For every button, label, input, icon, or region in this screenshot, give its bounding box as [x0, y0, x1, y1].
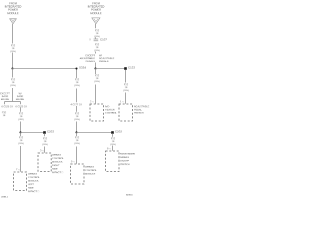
connector row C126 (branch A)	[1, 105, 12, 108]
label wire branch B F32 18 OR	[18, 112, 23, 121]
label adjustable pedal switch	[134, 105, 149, 115]
wire to left airbag module lower	[20, 146, 22, 172]
label FROM INTEGRATED POWER MODULE (left)	[5, 2, 22, 15]
wire branch B drop	[20, 102, 22, 105]
label wire F32 18 DG (left lower)	[10, 78, 15, 87]
wire center branch mid1	[76, 89, 78, 103]
node junction center on bus y68	[75, 67, 77, 69]
label page code bottom left	[1, 195, 8, 199]
connector C133 inline square	[124, 67, 127, 70]
wire right main below bus	[95, 69, 97, 75]
label pin 8 passenger airbag switch	[107, 147, 111, 150]
label wire right main to a/c	[94, 74, 99, 83]
label wire to airbag control module	[74, 136, 79, 145]
component adjustable pedal switch (dashed box)	[119, 104, 133, 121]
component airbag control module right side impact (dashed box)	[38, 153, 51, 171]
label variant with base brake	[16, 92, 24, 101]
wire left main upper	[12, 24, 14, 44]
wire to passenger airbag switch lower	[112, 146, 114, 151]
label wire branch A	[2, 111, 6, 117]
node junction center lower	[75, 131, 77, 133]
wire to airbag control module lower	[76, 147, 78, 164]
wire to right side impact module lower	[44, 147, 46, 153]
wire pedal branch lower	[125, 93, 127, 104]
component a/c heater control (dashed box)	[90, 104, 104, 121]
wire to right side impact module upper	[44, 133, 46, 136]
wire center branch lower	[76, 122, 78, 133]
wire horizontal bus y68 right segment	[96, 68, 125, 70]
label connector C133	[128, 66, 135, 70]
connector C107 inline symbol	[94, 39, 99, 41]
component airbag control module (dashed box)	[71, 164, 84, 184]
wire left main mid	[12, 53, 14, 69]
wire right main above bus	[95, 63, 97, 69]
wire left main lower	[12, 69, 14, 78]
label wire to left airbag module	[18, 136, 23, 145]
label wire F32 18 DG right above C107	[94, 29, 99, 38]
label variant with adjustable pedals	[99, 54, 114, 63]
label wire to right side impact module	[42, 137, 47, 146]
label a/c heater control	[105, 105, 117, 115]
wire left main to tee	[12, 88, 14, 102]
label figure number bottom right	[126, 193, 133, 197]
label pin 1 adjustable pedal switch	[120, 100, 124, 103]
wire center branch upper	[76, 69, 78, 79]
component airbag control module left side impact (dashed box)	[14, 172, 27, 190]
label pin 9 at C107	[89, 38, 90, 41]
connector row C125 (branch B)	[15, 105, 26, 108]
wire to airbag control module upper	[76, 133, 78, 137]
node splice junction left	[11, 67, 13, 69]
wire branch A drop	[4, 102, 6, 105]
label wire to passenger airbag switch	[110, 137, 115, 146]
wire branch B upper	[20, 108, 22, 112]
wire horizontal bus y132 left segment	[21, 132, 45, 134]
label pin 7 left airbag module	[15, 168, 19, 171]
connector inline square right lower	[111, 131, 114, 134]
label pin 3 right side impact module	[39, 149, 43, 152]
wire right main to a/c heater control	[95, 85, 97, 104]
label passenger airbag on/off switch	[120, 152, 135, 166]
label airbag control module left side impact	[28, 172, 40, 193]
label wire center branch upper	[74, 78, 79, 87]
label variant except base brake	[0, 92, 9, 101]
node junction S left lower	[19, 131, 21, 133]
component passenger airbag on/off switch (dashed box)	[106, 151, 119, 172]
wire center branch mid2	[76, 106, 78, 112]
wire to left airbag module upper	[20, 133, 22, 137]
feed triangle from integrated power module (right)	[92, 18, 100, 24]
wire to passenger airbag switch upper	[112, 133, 114, 136]
label variant except adjustable pedals	[80, 54, 95, 63]
label FROM INTEGRATED POWER MODULE (right)	[88, 2, 105, 15]
wire horizontal bus y132 right segment	[77, 132, 112, 134]
connector row C177 (center branch)	[70, 103, 81, 106]
wire right main below C107	[95, 37, 97, 38]
label pin 5 airbag control module	[71, 160, 75, 163]
label airbag control module	[85, 165, 97, 176]
wire right main upper	[95, 24, 97, 28]
label splice S334	[79, 66, 86, 70]
label connector C107	[100, 38, 107, 42]
label connector C202	[115, 130, 122, 134]
label wire center branch lower	[74, 112, 79, 121]
wire pedal branch upper	[125, 70, 127, 83]
label wire F32 18 DG (left upper)	[10, 44, 15, 53]
label pin 2 a/c heater control	[90, 100, 94, 103]
label wire F32 18 DG right below C107	[94, 43, 99, 52]
label wire pedal branch	[123, 83, 128, 92]
label airbag control module right side impact	[52, 153, 64, 174]
wire horizontal bus y68 left segment	[13, 68, 77, 70]
wire tee split	[5, 101, 21, 103]
feed triangle from integrated power module (left)	[10, 19, 17, 24]
connector C inline square left	[43, 131, 46, 134]
label connector C203	[47, 130, 54, 134]
wire right main mid	[95, 52, 97, 54]
node junction right bus	[94, 67, 96, 69]
wire branch B lower	[20, 122, 22, 133]
